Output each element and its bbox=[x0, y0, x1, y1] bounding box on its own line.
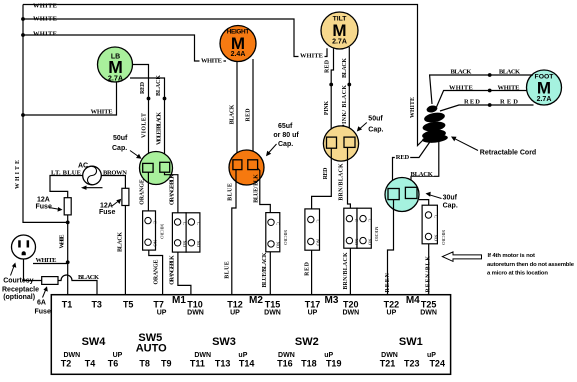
label RED m4 bbox=[395, 154, 410, 161]
micro switch M1 pair bbox=[172, 213, 200, 252]
wire HEIGHT black lead bbox=[236, 61, 238, 160]
svg-text:GREEN/BLK: GREEN/BLK bbox=[426, 256, 432, 298]
svg-text:T16: T16 bbox=[277, 359, 293, 369]
svg-text:C: C bbox=[182, 222, 187, 225]
svg-text:BLACK: BLACK bbox=[78, 274, 99, 281]
node LB junctions bbox=[147, 97, 167, 101]
svg-text:C: C bbox=[196, 222, 201, 225]
label Courtesy Receptacle bbox=[2, 263, 39, 301]
wire receptacle to 6A fuse bbox=[24, 260, 42, 281]
terminal T20 DWN bbox=[342, 300, 359, 317]
svg-text:ORANGE: ORANGE bbox=[153, 259, 159, 284]
node TILT junctions bbox=[329, 83, 351, 87]
svg-text:T17: T17 bbox=[305, 300, 321, 310]
terminal T25 DWN bbox=[420, 300, 437, 317]
svg-text:NO: NO bbox=[196, 241, 201, 248]
svg-text:SW2: SW2 bbox=[295, 336, 319, 348]
svg-text:WHITE: WHITE bbox=[33, 16, 57, 23]
svg-text:Cap.: Cap. bbox=[368, 126, 383, 133]
svg-text:M4: M4 bbox=[406, 295, 420, 306]
wire white rail 3 to height bbox=[23, 35, 226, 61]
svg-text:T10: T10 bbox=[187, 300, 203, 310]
svg-text:BLACK: BLACK bbox=[342, 58, 348, 78]
svg-text:RED: RED bbox=[396, 154, 410, 161]
svg-text:Receptacle: Receptacle bbox=[2, 286, 39, 293]
svg-text:50uf: 50uf bbox=[113, 135, 128, 142]
svg-text:Fuse: Fuse bbox=[99, 209, 115, 216]
svg-text:C: C bbox=[367, 219, 372, 222]
wire LB cap to micro (orange) bbox=[147, 172, 149, 211]
svg-text:RED: RED bbox=[500, 99, 518, 106]
svg-text:UP: UP bbox=[230, 310, 240, 317]
capacitor 30uf FOOT bbox=[385, 178, 419, 212]
svg-text:T24: T24 bbox=[429, 359, 445, 369]
svg-text:NO: NO bbox=[153, 240, 158, 247]
svg-text:PINK/ BLACK: PINK/ BLACK bbox=[342, 85, 348, 128]
svg-text:T6: T6 bbox=[108, 359, 119, 369]
wire FOOT black bbox=[430, 75, 533, 104]
svg-text:2.4A: 2.4A bbox=[231, 51, 246, 58]
svg-text:NO: NO bbox=[354, 239, 359, 246]
fuse 12A right bbox=[122, 188, 129, 205]
motor M HEIGHT bbox=[220, 26, 256, 62]
wire micro M1 pair to T10 bbox=[178, 252, 191, 301]
courtesy receptacle bbox=[12, 235, 36, 259]
svg-text:RED: RED bbox=[323, 168, 329, 180]
svg-text:WHITE: WHITE bbox=[91, 109, 113, 116]
wire LB black lead bbox=[130, 78, 165, 162]
svg-text:VIOLET/ BLACK: VIOLET/ BLACK bbox=[156, 112, 162, 145]
svg-text:T12: T12 bbox=[227, 300, 243, 310]
terminal T17 UP bbox=[305, 300, 321, 317]
svg-text:6A: 6A bbox=[37, 300, 46, 307]
wire AC left to fuse bbox=[50, 176, 83, 198]
svg-text:BLACK: BLACK bbox=[156, 75, 162, 96]
svg-text:ORANGE/ BLK: ORANGE/ BLK bbox=[169, 255, 175, 285]
svg-text:BLACK: BLACK bbox=[499, 69, 520, 76]
svg-text:T4: T4 bbox=[85, 359, 96, 369]
terminal T22 UP bbox=[384, 300, 400, 317]
wire micro M3 to T17 bbox=[311, 250, 313, 301]
svg-text:30uf: 30uf bbox=[443, 194, 458, 201]
svg-text:RED: RED bbox=[464, 99, 480, 106]
svg-text:M: M bbox=[332, 21, 346, 40]
wire micro M4 to T25 bbox=[428, 244, 430, 302]
motor M LB bbox=[98, 47, 133, 83]
svg-text:NO: NO bbox=[433, 235, 438, 242]
svg-text:T23: T23 bbox=[404, 359, 420, 369]
svg-text:DWN: DWN bbox=[342, 310, 359, 317]
svg-text:50uf: 50uf bbox=[368, 116, 383, 123]
svg-text:SW4: SW4 bbox=[82, 336, 107, 348]
svg-text:BLACK: BLACK bbox=[118, 232, 124, 252]
svg-text:T13: T13 bbox=[215, 359, 231, 369]
wire HEIGHT cap right to micro (blue/blk) bbox=[257, 168, 270, 213]
svg-text:T5: T5 bbox=[123, 300, 134, 310]
wire M4 cap to T22 (green) bbox=[388, 200, 394, 302]
svg-text:BLACK: BLACK bbox=[411, 171, 433, 178]
label 6A Fuse bbox=[35, 286, 51, 315]
label 30uf Cap bbox=[426, 192, 458, 210]
label 65uf or 80uf Cap bbox=[266, 123, 299, 156]
wire AC right to fuse bbox=[102, 176, 126, 189]
svg-text:T19: T19 bbox=[326, 359, 342, 369]
svg-text:ORANGE: ORANGE bbox=[140, 179, 146, 205]
svg-text:2.7A: 2.7A bbox=[537, 96, 552, 103]
switch SW4 bbox=[61, 336, 123, 369]
svg-text:M: M bbox=[537, 79, 551, 98]
wire FOOT white bbox=[437, 91, 527, 108]
svg-text:T1: T1 bbox=[62, 300, 73, 310]
wire HEIGHT cap to T12 (blue) bbox=[232, 170, 236, 302]
wire LB red lead bbox=[132, 65, 149, 164]
svg-text:NO: NO bbox=[315, 239, 320, 246]
terminal T10 DWN bbox=[187, 300, 204, 317]
svg-text:RED: RED bbox=[140, 82, 146, 94]
terminal T12 UP bbox=[227, 300, 243, 317]
svg-text:DWN: DWN bbox=[187, 310, 204, 317]
switch SW2 bbox=[277, 336, 341, 369]
wire coil to cap black bbox=[411, 141, 439, 187]
svg-text:M1: M1 bbox=[172, 295, 186, 306]
svg-text:T18: T18 bbox=[301, 359, 317, 369]
switch SW1 bbox=[380, 336, 445, 369]
svg-text:T20: T20 bbox=[343, 300, 359, 310]
svg-text:SW1: SW1 bbox=[399, 336, 423, 348]
svg-text:Retractable Cord: Retractable Cord bbox=[480, 150, 536, 157]
svg-text:12A: 12A bbox=[37, 196, 50, 203]
svg-text:DWN: DWN bbox=[264, 310, 281, 317]
svg-text:(optional): (optional) bbox=[3, 294, 35, 301]
svg-text:VIOLET: VIOLET bbox=[141, 113, 147, 138]
wire receptacle white bbox=[33, 263, 68, 265]
svg-text:UP: UP bbox=[308, 310, 318, 317]
svg-text:T25: T25 bbox=[421, 300, 437, 310]
wire white rail 2 to tilt bbox=[23, 19, 327, 57]
svg-text:BLACK: BLACK bbox=[451, 69, 472, 76]
svg-text:UP: UP bbox=[157, 310, 167, 317]
wire TILT black lead bbox=[348, 47, 350, 137]
label 12A Fuse right bbox=[99, 199, 121, 216]
wire TILT cap right to micro pair (brn/black) bbox=[348, 147, 351, 208]
svg-text:WHITE: WHITE bbox=[498, 85, 520, 92]
micro switch M2 bbox=[266, 213, 281, 252]
node bus junctions bbox=[21, 17, 25, 117]
svg-text:MICRO: MICRO bbox=[374, 227, 379, 243]
svg-text:C: C bbox=[153, 221, 158, 224]
svg-text:C: C bbox=[315, 220, 320, 223]
AC source bbox=[78, 163, 103, 190]
svg-text:WHITE: WHITE bbox=[300, 53, 323, 60]
wire white to LB motor bbox=[23, 80, 117, 115]
switch SW5 AUTO bbox=[136, 332, 172, 369]
svg-text:WHITE: WHITE bbox=[33, 3, 57, 10]
svg-text:UP: UP bbox=[387, 310, 397, 317]
svg-text:RED: RED bbox=[305, 262, 311, 276]
wire FOOT red bbox=[440, 105, 534, 111]
svg-text:BLUE: BLUE bbox=[228, 183, 234, 201]
fuse 6A bbox=[42, 277, 58, 285]
svg-text:BLUE: BLUE bbox=[225, 261, 231, 279]
svg-text:Fuse: Fuse bbox=[35, 309, 51, 316]
svg-text:SW3: SW3 bbox=[212, 336, 236, 348]
wire micro M2 to T15 bbox=[269, 252, 271, 302]
svg-text:T11: T11 bbox=[190, 359, 205, 369]
svg-text:65uf: 65uf bbox=[278, 123, 293, 130]
svg-text:WHITE: WHITE bbox=[36, 257, 57, 264]
label BLACK m4 bbox=[410, 171, 434, 178]
node fuse junctions bbox=[66, 221, 70, 265]
svg-text:or 80 uf: or 80 uf bbox=[273, 132, 299, 139]
svg-text:T15: T15 bbox=[265, 300, 281, 310]
capacitor 50uf TILT bbox=[323, 126, 358, 161]
switch SW3 bbox=[190, 336, 254, 369]
wire micro M1 to T7 (orange) bbox=[149, 250, 163, 301]
motor M FOOT bbox=[527, 70, 562, 105]
svg-text:C: C bbox=[433, 215, 438, 218]
terminal T15 DWN bbox=[264, 300, 281, 317]
svg-text:BLACK: BLACK bbox=[230, 104, 236, 124]
wire M4 cap right to micro bbox=[419, 200, 429, 206]
svg-text:AC: AC bbox=[78, 163, 88, 170]
terminal T7 UP bbox=[153, 300, 166, 317]
svg-text:NO: NO bbox=[367, 239, 372, 246]
svg-text:MICRO: MICRO bbox=[283, 230, 288, 246]
label 50uf Cap TILT bbox=[357, 116, 384, 134]
wire HEIGHT red lead bbox=[252, 59, 254, 160]
svg-text:MICRO: MICRO bbox=[441, 230, 446, 246]
svg-text:RED: RED bbox=[245, 109, 251, 122]
svg-text:autoreturn then do not assembl: autoreturn then do not assemble bbox=[487, 262, 575, 268]
svg-text:C: C bbox=[354, 219, 359, 222]
svg-text:T8: T8 bbox=[139, 359, 150, 369]
micro switch M4 bbox=[422, 205, 438, 244]
svg-text:2.7A: 2.7A bbox=[108, 74, 123, 83]
note arrow if 4th motor bbox=[442, 252, 574, 277]
svg-text:WHITE: WHITE bbox=[201, 58, 222, 65]
svg-text:DWN: DWN bbox=[420, 310, 437, 317]
label WHITE height bbox=[200, 56, 224, 65]
svg-text:M3: M3 bbox=[325, 295, 339, 306]
svg-text:WHITE: WHITE bbox=[15, 160, 21, 189]
svg-text:If 4th motor is not: If 4th motor is not bbox=[488, 253, 536, 259]
svg-text:WHITE: WHITE bbox=[60, 234, 66, 248]
wire coil to cap red bbox=[393, 141, 431, 189]
wire micro M3 pair to T20 bbox=[349, 248, 351, 301]
svg-text:BLUE/BLACK: BLUE/BLACK bbox=[262, 252, 268, 287]
wire fuse right down to T5 (black) bbox=[124, 206, 126, 302]
svg-text:NO: NO bbox=[182, 241, 187, 248]
svg-text:WHITE: WHITE bbox=[449, 85, 473, 92]
wire white bus left bbox=[23, 5, 68, 223]
svg-text:PINK: PINK bbox=[324, 100, 330, 115]
svg-text:Cap.: Cap. bbox=[443, 203, 458, 210]
wire 6A fuse to T3 (black) with hop bbox=[58, 275, 97, 302]
capacitor 50uf LB bbox=[140, 152, 173, 185]
fuse 12A left bbox=[64, 198, 71, 215]
svg-text:T22: T22 bbox=[384, 300, 400, 310]
wire LB cap right out (orange/blk) bbox=[165, 172, 178, 213]
micro switch M3 pair bbox=[344, 208, 373, 248]
wire white rail 1 top bbox=[23, 5, 424, 146]
svg-text:Fuse: Fuse bbox=[36, 203, 52, 210]
svg-text:BLUE/ BLK: BLUE/ BLK bbox=[253, 174, 259, 203]
svg-text:MICRO: MICRO bbox=[160, 224, 165, 240]
svg-text:BRN/BLACK: BRN/BLACK bbox=[339, 163, 345, 201]
svg-text:ORANGE/ BLK: ORANGE/ BLK bbox=[169, 174, 175, 205]
svg-text:a micro at this location: a micro at this location bbox=[487, 271, 548, 277]
svg-text:WHITE: WHITE bbox=[33, 31, 57, 38]
capacitor 65uf HEIGHT bbox=[229, 150, 264, 185]
label 50uf Cap LB bbox=[112, 135, 142, 159]
svg-text:Cap.: Cap. bbox=[278, 141, 293, 148]
svg-text:T9: T9 bbox=[161, 359, 172, 369]
svg-text:BRN/BLACK: BRN/BLACK bbox=[343, 252, 349, 290]
switch console box bbox=[51, 295, 450, 375]
svg-text:WHITE: WHITE bbox=[410, 97, 416, 118]
svg-text:AUTO: AUTO bbox=[136, 343, 167, 355]
micro switch M1 single bbox=[143, 211, 158, 250]
label Retractable Cord bbox=[451, 137, 536, 157]
motor M TILT bbox=[321, 12, 358, 49]
wire TILT red lead bbox=[331, 49, 333, 138]
svg-text:T21: T21 bbox=[380, 359, 396, 369]
svg-text:T2: T2 bbox=[61, 359, 72, 369]
wire fuse left down to T1 bbox=[67, 215, 69, 302]
wire TILT cap left to micro (red) bbox=[312, 148, 332, 209]
retractable cord coil bbox=[421, 105, 448, 144]
label WHITE tilt bbox=[299, 51, 325, 60]
svg-text:Cap.: Cap. bbox=[112, 145, 127, 152]
micro switch M3 single bbox=[305, 209, 321, 250]
svg-text:T14: T14 bbox=[239, 359, 255, 369]
svg-text:M2: M2 bbox=[249, 295, 263, 306]
node FOOT junctions bbox=[488, 73, 492, 107]
svg-text:T7: T7 bbox=[153, 300, 164, 310]
svg-text:2.7A: 2.7A bbox=[332, 39, 347, 46]
svg-text:T3: T3 bbox=[91, 300, 102, 310]
svg-text:NO: NO bbox=[276, 242, 281, 249]
label 12A Fuse left bbox=[36, 196, 63, 211]
svg-text:C: C bbox=[276, 222, 281, 225]
svg-text:RED: RED bbox=[324, 60, 330, 73]
